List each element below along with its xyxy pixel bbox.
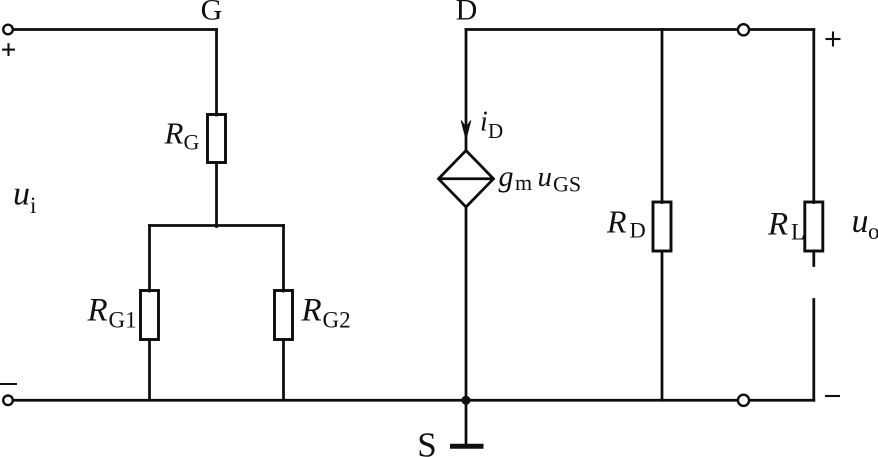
svg-text:R: R — [767, 207, 788, 243]
svg-text:G: G — [184, 130, 200, 155]
svg-text:D: D — [488, 119, 503, 143]
svg-text:g: g — [499, 160, 514, 193]
svg-text:GS: GS — [553, 172, 581, 197]
svg-text:u: u — [538, 161, 553, 193]
svg-text:R: R — [301, 293, 322, 329]
svg-text:G: G — [201, 0, 223, 27]
svg-text:u: u — [13, 176, 30, 213]
svg-text:R: R — [606, 204, 627, 240]
svg-text:D: D — [630, 218, 646, 243]
svg-text:G1: G1 — [109, 308, 137, 333]
svg-text:S: S — [417, 426, 436, 457]
svg-text:G2: G2 — [323, 308, 351, 333]
svg-text:R: R — [87, 293, 108, 329]
svg-text:R: R — [164, 116, 184, 151]
svg-text:L: L — [791, 220, 805, 245]
svg-text:m: m — [515, 170, 532, 195]
svg-text:i: i — [480, 107, 488, 138]
svg-text:D: D — [456, 0, 478, 27]
svg-text:u: u — [852, 203, 869, 240]
svg-text:i: i — [30, 193, 36, 218]
svg-text:o: o — [868, 219, 878, 244]
